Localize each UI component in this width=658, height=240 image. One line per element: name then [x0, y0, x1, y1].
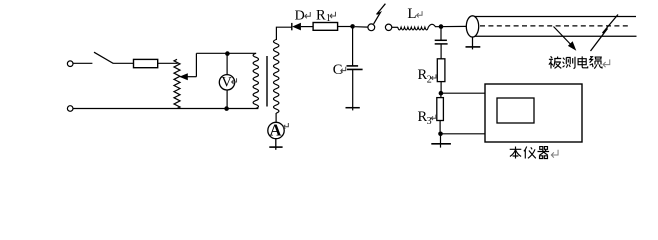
wire	[439, 121, 441, 134]
potentiometer wiper arrow	[179, 73, 196, 80]
return mark	[551, 150, 558, 158]
node (C tap)	[350, 24, 355, 29]
capacitor (divider coupling)	[435, 40, 448, 44]
wire	[338, 26, 353, 28]
breakdown lightning arrow	[374, 4, 386, 24]
wire	[226, 90, 228, 109]
wire	[441, 92, 485, 94]
switch S blade	[94, 52, 113, 63]
return mark	[283, 123, 288, 129]
wire (wiper riser)	[195, 53, 197, 76]
ammeter A	[268, 120, 284, 139]
svg-text:L: L	[407, 6, 416, 22]
instrument display screen	[497, 98, 534, 123]
return mark	[232, 78, 237, 84]
wire (divider branch)	[440, 27, 442, 41]
return mark	[603, 59, 610, 67]
return mark	[431, 74, 436, 79]
wire	[441, 133, 486, 135]
resistor R2	[437, 59, 445, 82]
label L	[407, 6, 416, 22]
return mark	[431, 115, 436, 120]
potentiometer RP element	[174, 59, 180, 108]
svg-text:A: A	[269, 120, 281, 139]
transformer core	[266, 56, 268, 107]
wire	[226, 54, 228, 75]
wire (secondary bottom lead)	[275, 113, 277, 123]
voltmeter V	[219, 74, 234, 90]
label R2	[418, 67, 432, 85]
node (R2/R3 junction)	[439, 91, 444, 96]
cable end cap	[466, 16, 478, 37]
svg-text:D: D	[295, 8, 305, 23]
wire (C branch)	[352, 29, 354, 66]
return mark	[341, 67, 346, 73]
terminal J2 (bottom input)	[67, 106, 73, 112]
label R3	[418, 109, 432, 127]
ground (cable sheath)	[466, 37, 481, 50]
label R1	[316, 7, 331, 24]
label C	[333, 62, 343, 78]
return mark	[330, 12, 335, 18]
label 本仪器	[510, 147, 549, 159]
wire	[352, 69, 354, 107]
node (V top junction)	[225, 51, 230, 56]
wire	[440, 44, 442, 59]
ground (divider)	[431, 134, 451, 148]
wire	[392, 26, 398, 28]
transformer T secondary winding	[274, 40, 279, 114]
wire	[440, 82, 442, 94]
callout arrow	[554, 27, 577, 51]
node (R3 bottom junction)	[438, 132, 443, 137]
wire	[440, 93, 442, 97]
node (cable feed junction)	[439, 24, 444, 29]
diode D	[292, 23, 301, 31]
terminal J1 (top input)	[67, 61, 73, 67]
wire (secondary top lead)	[276, 27, 291, 40]
cable sheath bottom	[475, 35, 637, 37]
wire	[158, 62, 178, 64]
wire	[73, 62, 92, 64]
label 被测电缆	[549, 56, 602, 68]
cable sheath top	[475, 16, 637, 18]
svg-text:V: V	[221, 74, 232, 90]
spark-gap electrode (left)	[368, 24, 375, 31]
svg-text:R: R	[316, 7, 326, 23]
fault lightning mark	[591, 15, 619, 52]
node (V bottom junction)	[224, 106, 229, 111]
wire	[435, 25, 467, 27]
svg-text:1: 1	[326, 13, 331, 24]
wire	[113, 62, 133, 64]
wire (bottom rail)	[73, 108, 258, 110]
inductor L	[398, 24, 436, 30]
label D	[295, 8, 305, 23]
ground (C)	[346, 108, 360, 111]
wire	[355, 26, 368, 28]
transformer T primary winding	[253, 53, 258, 108]
cable core (dashed)	[480, 25, 631, 27]
resistor R3	[437, 98, 444, 121]
resistor R1	[313, 23, 338, 31]
return mark	[305, 12, 310, 18]
return mark	[417, 11, 422, 17]
wire	[301, 26, 313, 28]
svg-text:2: 2	[427, 74, 432, 85]
resistor (current-limit box)	[134, 59, 158, 67]
instrument box (本仪器)	[485, 84, 582, 142]
ground (ammeter)	[269, 139, 282, 150]
wire (top rail)	[196, 52, 256, 54]
spark-gap electrode (right)	[385, 24, 391, 30]
capacitor C	[347, 66, 363, 70]
